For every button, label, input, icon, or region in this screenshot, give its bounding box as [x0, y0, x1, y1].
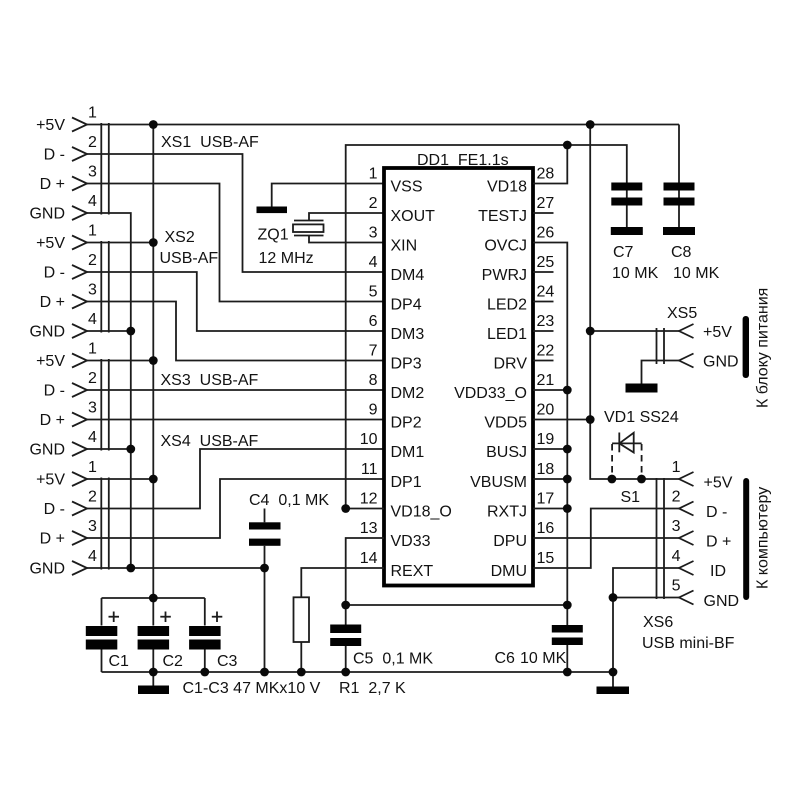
svg-text:+5V: +5V: [703, 324, 732, 341]
svg-text:2: 2: [672, 489, 681, 506]
svg-text:26: 26: [537, 225, 555, 242]
svg-text:+5V: +5V: [36, 472, 65, 489]
junction dot pin12 / C4 / 1.8V: [341, 504, 350, 513]
wire pin21 VDD33_O stub: [533, 389, 567, 391]
svg-text:C3: C3: [217, 653, 238, 670]
svg-text:GND: GND: [29, 206, 65, 223]
svg-text:10 MK: 10 MK: [520, 650, 567, 667]
junction dot GND bus XS3: [126, 445, 135, 454]
junction dot 3.3V bus pin18: [563, 475, 572, 484]
svg-text:OVCJ: OVCJ: [484, 238, 527, 255]
svg-text:USB-AF: USB-AF: [160, 250, 219, 267]
wire S1 jumper segment: [612, 478, 642, 480]
pin25 PWRJ stub: [533, 271, 554, 273]
svg-text:22: 22: [537, 343, 555, 360]
svg-text:LED1: LED1: [487, 326, 527, 343]
svg-text:3: 3: [369, 225, 378, 242]
svg-text:2: 2: [88, 252, 97, 269]
svg-text:D +: D +: [706, 534, 731, 551]
svg-text:5: 5: [369, 284, 378, 301]
svg-text:10 MK: 10 MK: [612, 265, 659, 282]
svg-text:VD33: VD33: [391, 533, 431, 550]
svg-text:12: 12: [360, 491, 378, 508]
junction dot GND bus XS4: [126, 564, 135, 573]
svg-text:TESTJ: TESTJ: [478, 208, 527, 225]
svg-text:DM3: DM3: [391, 326, 425, 343]
svg-text:15: 15: [537, 550, 555, 567]
junction dot +5V bus / C1-C3 rail: [149, 594, 158, 603]
svg-text:1: 1: [88, 223, 97, 240]
svg-text:VD1 SS24: VD1 SS24: [604, 409, 679, 426]
wire XS2 D- to DM3 pin6: [87, 272, 384, 331]
svg-text:18: 18: [537, 461, 555, 478]
IC DD1 FE1.1s: [384, 152, 533, 586]
svg-text:1: 1: [88, 341, 97, 358]
svg-text:20: 20: [537, 402, 555, 419]
svg-text:К компьютеру: К компьютеру: [755, 487, 772, 589]
svg-text:XIN: XIN: [391, 238, 418, 255]
svg-text:3: 3: [672, 518, 681, 535]
svg-text:+5V: +5V: [36, 353, 65, 370]
svg-text:3: 3: [88, 282, 97, 299]
capacitor C2 47 MK (electrolytic, polarized): [138, 598, 183, 687]
junction dot GND drop / bottom rail: [260, 668, 269, 677]
wire pin15 DMU to XS6 pin2 D-: [533, 509, 679, 569]
svg-text:+5V: +5V: [36, 235, 65, 252]
wire XS3 +5V: [87, 360, 153, 362]
svg-text:XS4 USB-AF: XS4 USB-AF: [161, 433, 259, 450]
connector XS2 USB-AF: [29, 223, 218, 341]
wire XS6 pin4 ID to GND row: [613, 568, 679, 598]
svg-text:GND: GND: [29, 324, 65, 341]
junction dot 3.3V bus pin21: [563, 386, 572, 395]
svg-text:16: 16: [537, 520, 555, 537]
pin22 DRV stub: [533, 360, 554, 362]
svg-text:DD1 FE1.1s: DD1 FE1.1s: [417, 152, 509, 169]
svg-text:VBUSM: VBUSM: [470, 474, 527, 491]
ground symbol at VSS: [257, 184, 385, 214]
svg-text:VSS: VSS: [391, 179, 423, 196]
capacitor C7 10 MK: [611, 183, 659, 283]
svg-text:10 MK: 10 MK: [673, 265, 720, 282]
wire XS4 D- to DM1 pin10: [87, 449, 384, 509]
svg-text:23: 23: [537, 313, 555, 330]
svg-text:9: 9: [369, 402, 378, 419]
svg-text:C7: C7: [613, 244, 634, 261]
junction dot C3 / bottom rail: [200, 668, 209, 677]
junction dot GND row / bottom rail: [609, 668, 618, 677]
capacitor C3 47 MK (electrolytic, polarized): [189, 598, 237, 672]
svg-text:DP2: DP2: [391, 415, 422, 432]
junction dot +5V rail / right bus: [586, 120, 595, 129]
junction dot 3.3V bus / C6: [563, 601, 572, 610]
wire pin19 BUSJ stub: [533, 448, 567, 450]
svg-text:D -: D -: [44, 501, 65, 518]
svg-text:10: 10: [360, 431, 378, 448]
junction dot +5V rail / left bus: [149, 120, 158, 129]
svg-text:D -: D -: [44, 265, 65, 282]
svg-text:C1: C1: [109, 653, 130, 670]
svg-text:VDD33_O: VDD33_O: [454, 385, 527, 402]
svg-text:D -: D -: [44, 383, 65, 400]
wire 3.3V bus: pin26 OVCJ down right side: [533, 243, 567, 606]
svg-text:2: 2: [369, 195, 378, 212]
junction dot 3.3V bus pin17: [563, 504, 572, 513]
IC left pin names: [391, 179, 452, 581]
svg-text:6: 6: [369, 313, 378, 330]
svg-text:17: 17: [537, 491, 555, 508]
svg-text:3: 3: [88, 164, 97, 181]
svg-text:1: 1: [369, 166, 378, 183]
junction dot S1 right: [637, 475, 646, 484]
svg-text:21: 21: [537, 372, 555, 389]
svg-text:4: 4: [672, 548, 681, 565]
svg-text:XS2: XS2: [165, 229, 195, 246]
svg-text:13: 13: [360, 520, 378, 537]
svg-text:2: 2: [88, 489, 97, 506]
svg-text:C1-C3 47 MKx10 V: C1-C3 47 MKx10 V: [183, 680, 321, 697]
wire XS3 D+ to DP2 pin9: [87, 419, 384, 421]
svg-text:4: 4: [369, 254, 378, 271]
svg-text:LED2: LED2: [487, 297, 527, 314]
ground symbol below C2: [138, 686, 169, 695]
svg-text:3: 3: [88, 518, 97, 535]
svg-text:D -: D -: [44, 147, 65, 164]
wire XS1 D+ to DP4 pin5: [87, 184, 384, 302]
svg-text:2: 2: [88, 134, 97, 151]
svg-text:DP1: DP1: [391, 474, 422, 491]
svg-text:DP4: DP4: [391, 297, 422, 314]
svg-text:+5V: +5V: [704, 475, 733, 492]
svg-text:1: 1: [88, 459, 97, 476]
pin24 LED2 stub: [533, 301, 554, 303]
svg-text:D +: D +: [40, 412, 65, 429]
resistor R1 2,7 K: [294, 597, 407, 697]
svg-text:GND: GND: [703, 354, 739, 371]
svg-text:25: 25: [537, 254, 555, 271]
connector XS6 USB mini-BF: [642, 459, 739, 652]
svg-text:7: 7: [369, 343, 378, 360]
svg-text:S1: S1: [621, 489, 641, 506]
svg-text:27: 27: [537, 195, 555, 212]
capacitor C1 47 MK (electrolytic, polarized): [86, 598, 129, 672]
svg-text:C8: C8: [671, 244, 692, 261]
wire 1.8V net: C4 to pin12 VD18_O, up and over to pin28 VD18 and C7: [346, 145, 627, 509]
wire +5V right bus down to XS6 pin1: [590, 125, 612, 480]
svg-text:4: 4: [88, 429, 97, 446]
svg-text:BUSJ: BUSJ: [486, 444, 527, 461]
wire pin16 DPU to XS6 pin3 D+: [533, 537, 679, 539]
junction dot +5V bus pin20: [586, 415, 595, 424]
svg-text:GND: GND: [704, 593, 740, 610]
svg-text:XS1 USB-AF: XS1 USB-AF: [161, 134, 259, 151]
junction dot GND bus XS2: [126, 327, 135, 336]
svg-text:D -: D -: [706, 504, 727, 521]
junction dot 3.3V bus pin19: [563, 445, 572, 454]
svg-text:GND: GND: [29, 561, 65, 578]
svg-text:D +: D +: [40, 531, 65, 548]
svg-text:DM4: DM4: [391, 267, 425, 284]
capacitor C4 0,1 MK: [249, 492, 329, 568]
wire pin28 VD18 up to 1.8V line: [533, 145, 567, 184]
svg-text:XS3 USB-AF: XS3 USB-AF: [161, 372, 259, 389]
capacitor C5 0,1 MK: [330, 605, 433, 672]
svg-text:D +: D +: [40, 176, 65, 193]
svg-text:ZQ1: ZQ1: [258, 227, 289, 244]
svg-text:C2: C2: [163, 653, 184, 670]
svg-text:24: 24: [537, 284, 555, 301]
wire pin20 VDD5 to +5V bus: [533, 419, 590, 421]
crystal ZQ1 12 MHz: [258, 213, 385, 267]
svg-text:4: 4: [88, 548, 97, 565]
svg-text:USB mini-BF: USB mini-BF: [642, 635, 735, 652]
wire S1 to XS6 pin1 +5V: [642, 478, 680, 480]
svg-text:VD18: VD18: [487, 179, 527, 196]
svg-text:3: 3: [88, 400, 97, 417]
wire XS4 +5V: [87, 478, 153, 480]
cable bar K bloku pitaniya: [743, 316, 749, 378]
svg-text:12 MHz: 12 MHz: [259, 250, 314, 267]
wire XS3 GND: [87, 448, 131, 450]
svg-text:VD18_O: VD18_O: [391, 504, 452, 521]
svg-text:4: 4: [88, 311, 97, 328]
svg-text:+5V: +5V: [36, 117, 65, 134]
junction dot ID / GND row: [609, 593, 618, 602]
svg-text:ID: ID: [710, 563, 726, 580]
svg-text:4: 4: [88, 193, 97, 210]
wire XS2 +5V: [87, 242, 153, 244]
wire VD33 pin13 to C5/C6 line: [346, 538, 568, 605]
junction dot C2 / bottom rail: [149, 668, 158, 677]
junction dot pin13 line / C5: [341, 601, 350, 610]
IC right pin names: [454, 179, 527, 581]
svg-text:DM1: DM1: [391, 444, 425, 461]
svg-text:VDD5: VDD5: [484, 415, 527, 432]
wire XS1 D- to DM4 pin4: [87, 154, 384, 272]
junction dot +5V bus XS2: [149, 238, 158, 247]
junction dot R1 / bottom rail: [297, 668, 306, 677]
wire XS5 GND to ground: [642, 361, 680, 384]
capacitor C6 10 MK: [495, 605, 583, 672]
svg-text:REXT: REXT: [391, 563, 434, 580]
svg-text:DRV: DRV: [494, 356, 528, 373]
diode VD1 SS24: [604, 409, 679, 477]
svg-text:DMU: DMU: [491, 563, 527, 580]
wire XS4 GND / C4 junction down to bottom rail: [264, 568, 266, 672]
svg-text:XOUT: XOUT: [391, 208, 436, 225]
ground symbol at XS5: [626, 384, 658, 393]
junction dot C5 / bottom rail: [341, 668, 350, 677]
cable bar K kompyuteru: [743, 478, 749, 600]
svg-text:19: 19: [537, 431, 555, 448]
pin27 TESTJ stub: [533, 212, 554, 214]
pin23 LED1 stub: [533, 330, 554, 332]
junction dot 1.8V line / pin28: [563, 141, 572, 150]
svg-text:К блоку питания: К блоку питания: [755, 288, 772, 408]
svg-text:8: 8: [369, 372, 378, 389]
svg-text:C4 0,1 MK: C4 0,1 MK: [249, 492, 329, 509]
wire +5V rail (XS1 pin1 to C8): [87, 124, 679, 126]
svg-text:R1 2,7 K: R1 2,7 K: [339, 680, 406, 697]
wire XS4 D+ to DP1 pin11: [87, 479, 384, 538]
junction dot +5V bus XS4: [149, 475, 158, 484]
wire pin17 RXTJ stub: [533, 508, 567, 510]
svg-text:DM2: DM2: [391, 385, 425, 402]
wire XS4 GND row: [87, 567, 265, 569]
junction dot +5V bus XS3: [149, 356, 158, 365]
IC right pin numbers 28-15: [537, 166, 555, 568]
svg-text:14: 14: [360, 550, 378, 567]
svg-text:28: 28: [537, 166, 555, 183]
svg-text:RXTJ: RXTJ: [487, 504, 527, 521]
svg-text:1: 1: [672, 459, 681, 476]
wire XS2 GND: [87, 330, 131, 332]
wire pin18 VBUSM stub: [533, 478, 567, 480]
wire bottom ground rail: [102, 671, 614, 673]
wire XS6 pin5 GND row down to rail: [613, 598, 679, 687]
junction dot +5V bus XS5: [586, 327, 595, 336]
junction dot S1 left: [608, 475, 617, 484]
svg-text:C6: C6: [495, 650, 516, 667]
svg-text:D +: D +: [40, 294, 65, 311]
IC left pin numbers 1-14: [360, 166, 378, 568]
wire +5V left bus: [152, 125, 154, 599]
svg-text:DPU: DPU: [493, 533, 527, 550]
wire GND left bus: [87, 213, 131, 568]
ground symbol at XS6 rail end: [597, 687, 630, 695]
connector XS4 USB-AF: [29, 433, 258, 578]
svg-text:XS6: XS6: [643, 614, 673, 631]
svg-text:11: 11: [361, 461, 378, 478]
wire XS5 +5V: [590, 330, 679, 332]
wire XS3 D- to DM2 pin8: [87, 389, 384, 391]
svg-text:DP3: DP3: [391, 356, 422, 373]
svg-text:2: 2: [88, 370, 97, 387]
svg-text:C5 0,1 MK: C5 0,1 MK: [353, 651, 433, 668]
connector XS3 USB-AF: [29, 341, 258, 459]
svg-text:5: 5: [672, 578, 681, 595]
wire REXT pin14 to R1: [301, 568, 384, 597]
svg-text:PWRJ: PWRJ: [482, 267, 527, 284]
svg-text:GND: GND: [29, 442, 65, 459]
connector XS1 USB-AF: [29, 105, 259, 223]
junction dot C6 / bottom rail: [563, 668, 572, 677]
wire C1-C3 top +5V rail: [102, 597, 205, 599]
svg-text:1: 1: [88, 105, 97, 122]
wire XS2 D+ to DP3 pin7: [87, 302, 384, 361]
junction dot C4 bottom / GND row: [260, 564, 269, 573]
connector XS5: [657, 305, 739, 371]
capacitor C8 10 MK: [663, 125, 720, 283]
svg-text:XS5: XS5: [667, 305, 697, 322]
